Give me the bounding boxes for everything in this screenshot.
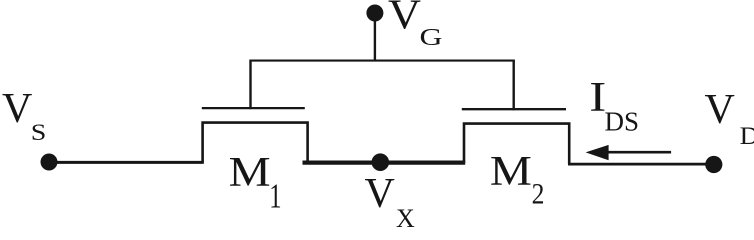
svg-text:1: 1 bbox=[269, 177, 281, 216]
svg-text:V: V bbox=[2, 86, 32, 132]
transistor M1 gate plate bbox=[202, 107, 305, 109]
node VS terminal dot bbox=[41, 154, 58, 171]
svg-text:V: V bbox=[388, 0, 421, 39]
current arrow IDS shaft bbox=[606, 151, 671, 154]
transistor M2 channel with source/drain drops bbox=[464, 124, 569, 164]
label VG bbox=[388, 0, 443, 51]
svg-text:X: X bbox=[396, 204, 415, 229]
svg-text:G: G bbox=[420, 25, 443, 51]
svg-text:V: V bbox=[365, 171, 395, 217]
current arrow IDS head bbox=[586, 145, 609, 160]
svg-text:S: S bbox=[31, 120, 47, 145]
label M2 bbox=[490, 149, 544, 210]
svg-text:2: 2 bbox=[532, 177, 545, 210]
svg-text:M: M bbox=[229, 150, 271, 196]
label IDS bbox=[589, 75, 639, 137]
node VX junction dot bbox=[372, 153, 390, 171]
wire VS to M1 source bbox=[49, 161, 204, 164]
wire M2 drain to VD bbox=[568, 163, 714, 166]
svg-text:D: D bbox=[605, 106, 625, 136]
wire gate bus bbox=[250, 60, 515, 62]
svg-text:S: S bbox=[624, 106, 639, 136]
svg-text:D: D bbox=[740, 123, 754, 150]
label VS bbox=[2, 86, 46, 145]
wire node X: M1 drain to M2 source (bold) bbox=[303, 161, 466, 165]
svg-text:M: M bbox=[490, 149, 532, 195]
svg-text:V: V bbox=[705, 87, 735, 133]
wire M2 gate lead bbox=[513, 60, 515, 111]
wire VG stem bbox=[374, 13, 376, 62]
node VD terminal dot bbox=[705, 156, 722, 173]
label VX bbox=[365, 171, 416, 233]
transistor M1 channel with source/drain drops bbox=[203, 123, 308, 163]
transistor M2 gate plate bbox=[462, 108, 566, 110]
label VD bbox=[705, 87, 754, 150]
node VG terminal dot bbox=[366, 5, 383, 22]
wire M1 gate lead bbox=[249, 60, 251, 110]
label M1 bbox=[229, 150, 282, 215]
